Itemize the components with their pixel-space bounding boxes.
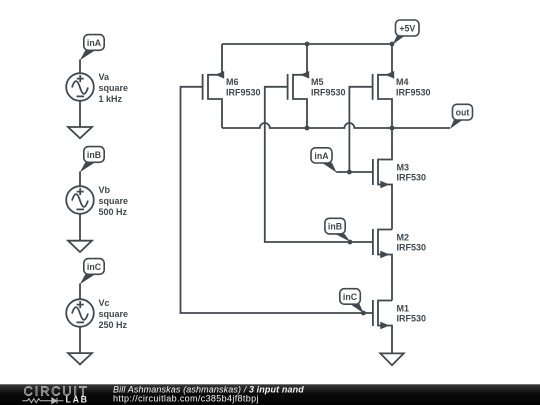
svg-text:out: out [456, 108, 470, 118]
wire inC flag to Vc top [79, 284, 81, 300]
wire inB flag to Vb top [79, 172, 81, 187]
label Vc square 250 Hz [99, 298, 129, 330]
wire inB row to M2 gate [264, 241, 373, 243]
svg-text:+5V: +5V [399, 23, 415, 33]
junction dot M5 drain on output rail [305, 126, 310, 131]
svg-text:inB: inB [328, 222, 342, 232]
voltage source Vb [66, 186, 94, 214]
wire inA flag to Va top [79, 60, 81, 74]
svg-text:Vb: Vb [99, 185, 111, 195]
junction dot inA/M4 gate [347, 170, 352, 175]
svg-text:1 kHz: 1 kHz [99, 94, 123, 104]
transistor M5 IRF9530 (PMOS) [288, 44, 310, 128]
ground (Vc) [68, 353, 92, 364]
svg-text:IRF530: IRF530 [397, 243, 427, 253]
svg-text:M2: M2 [397, 232, 410, 242]
node flag +5V [393, 20, 420, 45]
CircuitLab logo [22, 385, 88, 405]
junction dot inC [361, 311, 366, 316]
svg-text:IRF530: IRF530 [397, 173, 427, 183]
voltage source Vc [66, 299, 94, 327]
svg-text:http://circuitlab.com/c385b4jf: http://circuitlab.com/c385b4jf8tbpj [113, 394, 259, 404]
label M5 IRF9530 [311, 77, 346, 97]
wire M4 gate lead down to inA row (crosses output rail) [349, 87, 372, 172]
node flag inC (gate of M1/M6) [340, 289, 364, 314]
wire M5 gate lead down to inB row [265, 87, 288, 242]
svg-text:M3: M3 [397, 162, 410, 172]
label Vb square 500 Hz [99, 185, 129, 217]
junction dot M4 source at +5V flag [390, 42, 395, 47]
junction dot M5 source on +5V rail [305, 42, 310, 47]
svg-text:LAB: LAB [66, 394, 89, 404]
svg-text:IRF9530: IRF9530 [311, 87, 346, 97]
voltage source Va [66, 73, 94, 101]
node flag inB (gate of M2/M5) [325, 218, 350, 242]
svg-text:inA: inA [314, 151, 329, 161]
node flag inB (source Vb) [80, 147, 104, 173]
label M1 IRF530 [397, 303, 427, 323]
svg-text:M5: M5 [311, 77, 324, 87]
transistor M2 IRF530 (NMOS) [373, 229, 392, 301]
node flag inC (source Vc) [80, 259, 104, 285]
label M6 IRF9530 [226, 77, 261, 97]
node flag out [450, 104, 473, 129]
wire inA to M3 gate [336, 171, 373, 173]
ground (M1 source) [380, 353, 403, 365]
svg-text:IRF9530: IRF9530 [396, 87, 431, 97]
svg-text:250 Hz: 250 Hz [99, 320, 128, 330]
svg-text:M1: M1 [397, 303, 410, 313]
wire Vb bottom to ground [79, 214, 81, 241]
svg-text:inC: inC [343, 292, 358, 302]
svg-text:square: square [99, 196, 129, 206]
junction dot inB [348, 240, 353, 245]
label Va square 1 kHz [99, 72, 129, 104]
svg-text:M6: M6 [226, 77, 239, 87]
label M4 IRF9530 [396, 77, 431, 97]
svg-text:Vc: Vc [99, 298, 110, 308]
svg-text:M4: M4 [396, 77, 409, 87]
svg-text:inB: inB [87, 150, 101, 160]
transistor M1 IRF530 (NMOS) [373, 300, 392, 353]
svg-text:Va: Va [99, 72, 111, 82]
transistor M3 IRF530 (NMOS) [373, 128, 392, 230]
transistor M6 IRF9530 (PMOS) [203, 44, 225, 128]
wire inC row to M1 gate [180, 312, 373, 314]
wire Va bottom to ground [79, 101, 81, 127]
footer bar [0, 384, 540, 405]
svg-text:500 Hz: 500 Hz [99, 207, 128, 217]
wire Vc bottom to ground [79, 327, 81, 353]
svg-text:square: square [99, 309, 129, 319]
wire M6 gate lead down to inC row [181, 87, 203, 313]
transistor M4 IRF9530 (PMOS) [373, 44, 395, 128]
svg-text:IRF9530: IRF9530 [226, 87, 261, 97]
wire +5V supply rail [222, 43, 393, 45]
junction dot M4/M3 drains on output rail [390, 126, 395, 131]
node flag inA (gate of M3/M4) [311, 148, 337, 173]
svg-text:square: square [99, 83, 129, 93]
svg-text:inA: inA [87, 38, 102, 48]
label M2 IRF530 [397, 232, 427, 252]
ground (Va) [68, 127, 92, 138]
node flag inA (source Va) [80, 35, 104, 61]
ground (Vb) [68, 241, 92, 252]
wire output rail (drains to out) with hops [222, 123, 450, 128]
svg-text:IRF530: IRF530 [397, 314, 427, 324]
svg-text:inC: inC [87, 262, 102, 272]
label M3 IRF530 [397, 162, 427, 182]
